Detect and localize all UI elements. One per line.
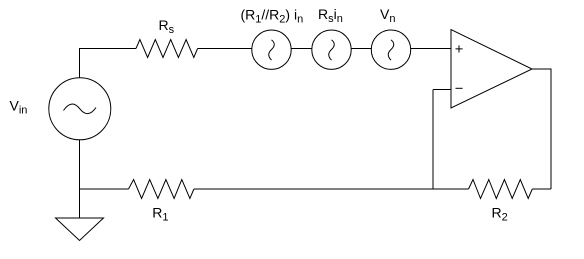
wire [80,49,137,79]
resistor Rs [136,40,198,58]
op-amp minus input marking [456,87,463,89]
wire [411,48,451,50]
wire [79,140,81,218]
wire [433,89,451,91]
noise source Vn [371,30,410,69]
wire [198,48,252,50]
resistor R1 [129,180,194,199]
op-amp plus input marking [456,45,463,52]
wire [80,188,129,190]
resistor R2 [469,180,533,199]
wire [532,188,551,190]
wire [194,188,469,190]
wire [432,90,434,190]
wire [532,69,551,189]
wire [351,48,371,50]
ground [56,218,104,241]
noise source Rs·in [312,30,351,69]
wire [291,48,311,50]
noise source (R1//R2)in [252,30,291,69]
source Vin [49,78,111,140]
op-amp U1 [451,30,532,109]
